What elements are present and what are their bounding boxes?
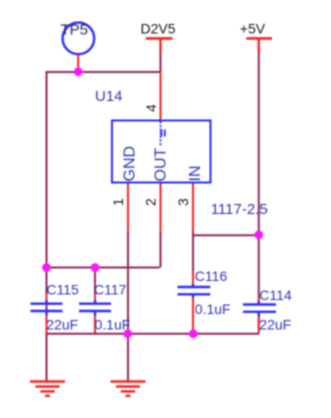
svg-text:1117-2.5: 1117-2.5 [211, 201, 268, 218]
wire ground bus bottom [47, 333, 259, 335]
svg-text:GND: GND [122, 146, 139, 182]
power symbol D2V5 [141, 21, 176, 53]
junction +5V to IN [254, 230, 263, 239]
capacitor C114 [243, 287, 292, 333]
svg-text:C114: C114 [259, 287, 292, 303]
junction C116 bottom [189, 329, 198, 338]
capacitor C115 [31, 282, 80, 333]
wire left ground drop [46, 268, 48, 381]
svg-text:+5V: +5V [240, 21, 266, 37]
wire D2V5 stem lower [160, 52, 162, 72]
wire top horizontal D2V5 net [47, 71, 161, 73]
wire IN pin3 down [192, 230, 194, 286]
junction gnd bus center [123, 329, 132, 338]
svg-text:0.1uF: 0.1uF [95, 317, 131, 333]
svg-text:4: 4 [143, 104, 159, 112]
pin 1 red stub [127, 183, 129, 232]
svg-text:22uF: 22uF [259, 316, 291, 332]
wire C117 bottom to bus [94, 315, 96, 334]
junction C115 top [42, 263, 51, 272]
equals mark [161, 130, 164, 137]
ground center [111, 382, 146, 396]
pin 2 red stub [160, 183, 162, 232]
wire C114 bottom to bus [258, 316, 260, 334]
svg-text:2: 2 [143, 198, 159, 206]
wire left rail vertical [46, 71, 48, 268]
wire pin3 to +5V horizontal [193, 234, 259, 236]
svg-text:IN: IN [187, 166, 204, 182]
pin 3 red stub [192, 183, 194, 232]
ground left [30, 382, 65, 396]
svg-text:U14: U14 [95, 88, 123, 105]
junction C117 top [91, 263, 100, 272]
power symbol +5V [240, 21, 272, 53]
test point TP5 [61, 21, 95, 71]
capacitor C116 [178, 268, 231, 332]
wire +5V rail vertical [258, 52, 260, 302]
wire C116 bottom to bus [192, 297, 194, 334]
svg-text:0.1uF: 0.1uF [195, 301, 231, 317]
svg-text:1: 1 [110, 198, 126, 206]
dotted line pin4 OUT [160, 122, 162, 146]
svg-text:C117: C117 [94, 282, 127, 298]
capacitor C117 [79, 282, 130, 333]
svg-text:C115: C115 [46, 282, 79, 298]
svg-text:OUT: OUT [152, 148, 169, 182]
pin 4 red stub [160, 72, 162, 120]
svg-text:C116: C116 [195, 268, 228, 284]
wire C117 top drop [94, 268, 96, 297]
svg-text:D2V5: D2V5 [141, 21, 176, 37]
op-amp U14 body [95, 88, 211, 183]
svg-text:TP5: TP5 [61, 21, 89, 38]
svg-text:22uF: 22uF [46, 317, 78, 333]
wire mid horizontal to OUT [47, 230, 161, 268]
junction TP5 [74, 67, 83, 76]
wire GND vertical center [127, 230, 129, 381]
svg-text:3: 3 [175, 198, 191, 206]
